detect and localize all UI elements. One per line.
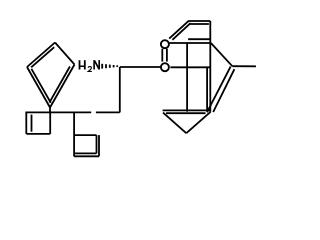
carbonyl oxygen O <box>161 40 169 48</box>
mid vertical <box>186 43 188 112</box>
bond kite-B to ring junction <box>49 108 51 114</box>
diag O-up inner (double bond) <box>172 23 190 40</box>
right square bottom outer <box>74 155 99 157</box>
kite edge L-B outer <box>27 67 50 108</box>
kite edge T-R <box>55 43 75 65</box>
right main vertical <box>209 21 211 112</box>
amine label N <box>93 60 100 69</box>
diag O-up outer <box>169 21 188 39</box>
left square bottom edge <box>26 133 50 135</box>
left square left edge <box>25 112 27 133</box>
ester O=O line b <box>166 49 168 62</box>
right square right outer <box>98 135 100 156</box>
kite edge R-B inner (double bond) <box>49 67 70 103</box>
bond chain vertical <box>119 67 121 112</box>
horizontal from O-up <box>169 42 211 44</box>
diag vertex-down outer <box>207 67 231 113</box>
left square right edge <box>49 112 51 133</box>
ester oxygen O <box>161 63 169 71</box>
top horizontal inner (double bond) <box>189 23 209 25</box>
lower double horizontal lower <box>166 112 206 114</box>
horizontal inner y39 <box>188 38 210 40</box>
bond C-O ester <box>120 66 160 68</box>
second vertical (double bond) <box>206 67 208 111</box>
right square top edge <box>74 134 96 136</box>
kite edge L-B inner (double bond) <box>31 69 50 103</box>
horizontal from O-low <box>170 66 210 68</box>
methyl bond <box>232 65 256 67</box>
diag vertex-down inner (double bond) <box>213 69 234 112</box>
hashed wedge bond (stereo) <box>101 64 103 69</box>
kite edge T-L inner (double bond) <box>31 47 54 67</box>
diag to methyl vertex <box>211 43 232 66</box>
lower double horizontal upper <box>163 109 211 111</box>
left square left inner (double bond) <box>31 115 33 132</box>
amine label subscript 2 <box>88 67 92 72</box>
top horizontal outer <box>188 20 210 22</box>
bond chain horizontal <box>96 111 120 113</box>
right square right inner <box>96 135 98 153</box>
right square left vertical <box>73 112 75 156</box>
long horizontal bond left <box>25 111 91 113</box>
V left side <box>163 113 186 134</box>
kite edge T-L outer <box>27 43 55 68</box>
V right side <box>186 112 210 133</box>
ester O=O line a <box>161 49 163 62</box>
kite edge R-B outer <box>50 65 75 108</box>
amine label H2N <box>79 60 86 69</box>
right square bottom inner <box>74 152 96 154</box>
